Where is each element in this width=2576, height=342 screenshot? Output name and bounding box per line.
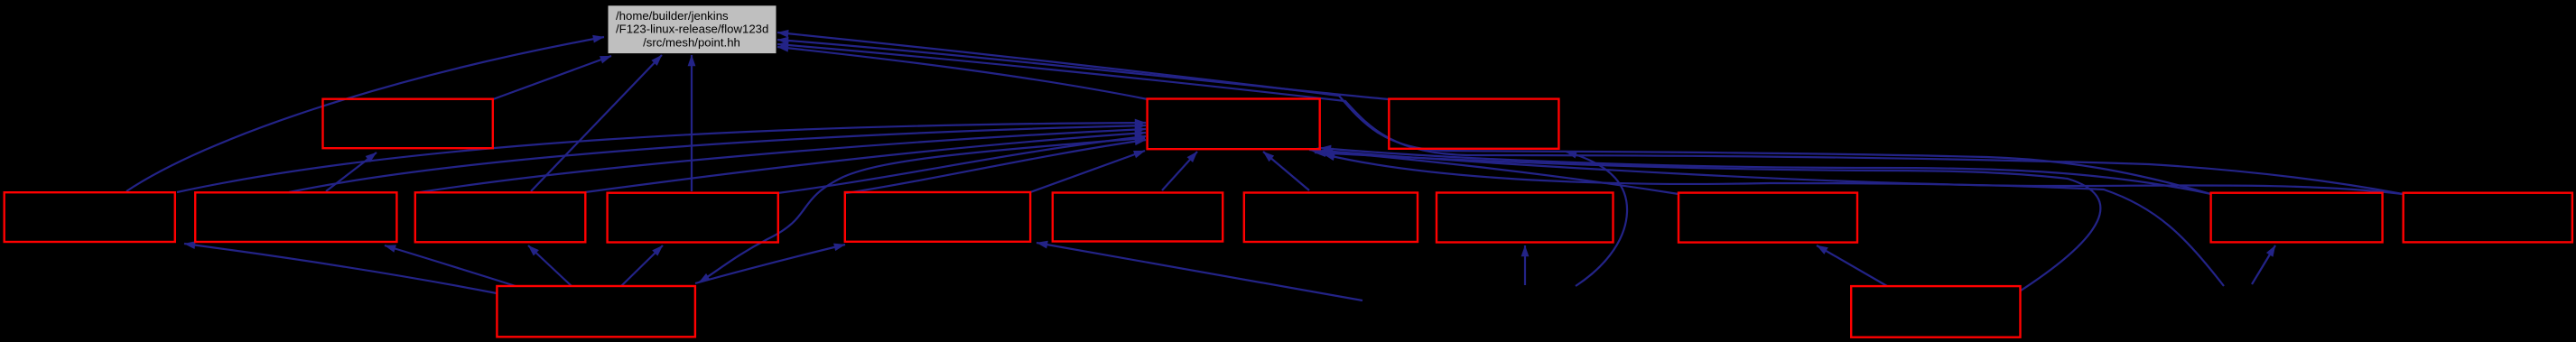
node grey root /src/mesh/point.hh xyxy=(608,5,777,54)
wire R2 to A xyxy=(326,153,377,191)
node R7 xyxy=(1244,193,1418,243)
wire R7 to hub xyxy=(1263,152,1309,190)
wire N2 to hub xyxy=(1324,154,2224,286)
node R1 xyxy=(5,192,175,242)
node R11 xyxy=(2404,193,2572,243)
wire R10 to grey root long curve xyxy=(777,32,2211,194)
wire R4 to hub xyxy=(777,136,1146,193)
wire R5 to hub corner xyxy=(1030,151,1145,192)
wire R9 to hub bundle xyxy=(1309,150,1679,194)
wire R4 to grey root xyxy=(691,55,693,191)
wire N2 to R10 xyxy=(2252,245,2275,284)
node D1 xyxy=(497,286,695,337)
wire D1 to R3 xyxy=(528,245,572,286)
wire R2 to hub xyxy=(289,125,1146,192)
svg-text:/src/mesh/point.hh: /src/mesh/point.hh xyxy=(643,36,740,50)
node R3 xyxy=(415,192,586,242)
node R10 xyxy=(2211,193,2383,243)
wire R5 to hub fan xyxy=(846,140,1146,193)
node R4 xyxy=(608,193,778,243)
wire N1 to B2 xyxy=(1566,152,1627,286)
node R5 xyxy=(845,192,1030,242)
wire R3 right to hub xyxy=(585,133,1146,192)
wire R3 to grey root xyxy=(531,55,662,191)
wire hub to D1 s-curve xyxy=(699,138,1145,282)
node R2 xyxy=(195,192,396,242)
node hub xyxy=(1148,99,1320,150)
node R6 xyxy=(1053,193,1223,242)
wire D1 to R1 xyxy=(184,244,497,293)
node B2 xyxy=(1389,99,1558,149)
wire R11 to grey root long curve xyxy=(777,44,2403,194)
wire R1 to grey root xyxy=(126,37,604,191)
wire D1 to R2 xyxy=(385,245,516,286)
wire R3 left to hub xyxy=(420,129,1146,192)
svg-text:/home/builder/jenkins: /home/builder/jenkins xyxy=(616,9,729,23)
wire R11 to hub bundle xyxy=(1322,151,2403,194)
wire D2 to R9 xyxy=(1817,245,1887,286)
node D2 xyxy=(1851,286,2020,337)
wire B2 to grey root xyxy=(777,40,1389,99)
wire N1 to R8 xyxy=(1524,245,1526,285)
wire D2 to R5 xyxy=(1037,243,1362,300)
wire D1 to R4 xyxy=(621,245,663,286)
node R9 xyxy=(1679,193,1857,243)
wire D1 to R5 xyxy=(695,245,845,283)
svg-text:/F123-linux-release/flow123d: /F123-linux-release/flow123d xyxy=(616,23,768,36)
wire R1 to hub xyxy=(177,123,1146,192)
wire D2 to hub arc xyxy=(1315,153,2100,291)
node A xyxy=(323,99,493,149)
wire hub to grey root xyxy=(777,47,1148,99)
wire A to grey root xyxy=(493,56,611,99)
node R8 xyxy=(1437,193,1613,243)
wire R6 to hub xyxy=(1162,152,1197,190)
wire R10 to hub bundle xyxy=(1320,148,2211,194)
